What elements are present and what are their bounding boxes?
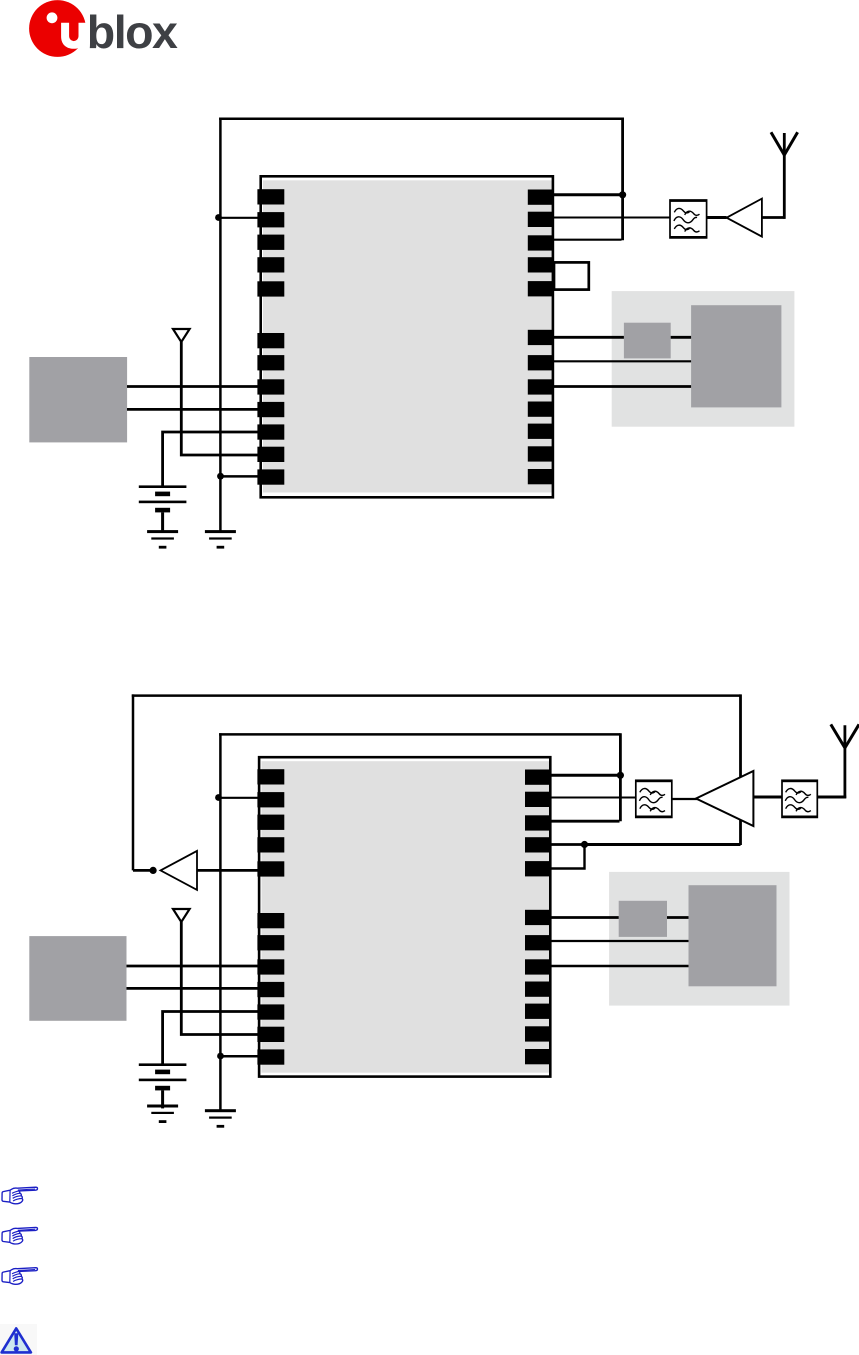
peripheral group box (right, diagram 1) (612, 291, 795, 427)
wire: pin R6 to level shifter (diagram 2) (550, 916, 619, 919)
wire: host block to pin L9 (diagram 2) (127, 987, 260, 990)
wire: outer rail right vertical (diagram 2) (739, 694, 742, 845)
backup battery (diagram 1) (139, 485, 187, 530)
wire: right vertical drop from rail (diagram 2) (619, 733, 622, 821)
GNSS module (diagram 2) (259, 757, 550, 1076)
GNSS module (diagram 1) (261, 176, 553, 497)
host CPU block (diagram 2) (689, 885, 777, 986)
wire: pin R3 to rail drop (diagram 2) (550, 820, 620, 823)
junction: pin R1 / rail drop (diagram 1) (619, 191, 626, 198)
wire: host block to pin L8 (diagram 1) (127, 385, 260, 388)
ground: battery (diagram 2) (147, 1105, 178, 1124)
wire: rail to pin L2 (diagram 1) (219, 217, 260, 219)
wire: SAW filter to antenna (diagram 2) (817, 796, 846, 799)
peripheral group box (right, diagram 2) (609, 872, 789, 1006)
wire: battery to pin L10 (diagram 1) (163, 432, 260, 486)
note icon: pointing hand 2 (2, 1227, 38, 1244)
wire: right vertical drop from rail (diagram 1) (621, 118, 624, 241)
wire: pin R1 to rail drop (diagram 2) (550, 774, 620, 777)
ground: left rail (diagram 2) (205, 1109, 236, 1128)
wire: rail to pin L12 (diagram 2) (221, 1055, 260, 1058)
level shifter block (diagram 1) (624, 323, 671, 359)
junction: rail / pin L2 (diagram 2) (215, 794, 222, 801)
module pins right column (diagram 2) (525, 770, 552, 1065)
SAW filter after LNA (diagram 2) (636, 780, 672, 818)
junction: rail / pin L2 (diagram 1) (215, 214, 222, 221)
wire: pin R7 to CPU (diagram 1) (552, 360, 691, 362)
wire: pin R6 to level shifter (diagram 1) (552, 336, 624, 339)
SAW filter (diagram 1) (670, 200, 707, 239)
antenna supervisor inverter (diagram 2) (161, 851, 198, 890)
wire: VCC to pin L11 (diagram 1) (181, 342, 259, 455)
junction: rail / pin L12 (diagram 2) (217, 1053, 224, 1060)
junction: pin R1 / rail drop (diagram 2) (617, 772, 624, 779)
wire: outer rail left vertical (diagram 2) (132, 694, 135, 870)
module pins left column (diagram 2) (257, 769, 284, 1065)
wire: pin R7 to CPU (diagram 2) (550, 940, 689, 942)
module pins right column (diagram 1) (528, 190, 553, 485)
module pins left column (diagram 1) (257, 189, 284, 485)
LNA amplifier (diagram 1) (727, 199, 762, 237)
wire: host block to pin L8 (diagram 2) (127, 965, 260, 968)
wire: VCC to pin L11 (diagram 2) (181, 922, 259, 1035)
host system block (left, diagram 2) (29, 936, 126, 1021)
wire: LNA to antenna (diagram 1) (762, 216, 786, 219)
wire: SAW filter to LNA (diagram 2) (672, 798, 698, 800)
warning icon background (0, 1324, 37, 1355)
wire: host block to pin L9 (diagram 1) (127, 408, 260, 411)
level shifter block (diagram 2) (619, 901, 667, 937)
wire: rail to pin L12 (diagram 1) (221, 475, 260, 478)
SAW filter at antenna (diagram 2) (782, 780, 817, 818)
u-blox logo (29, 0, 178, 58)
wire: battery to pin L10 (diagram 2) (163, 1012, 260, 1065)
note icon: pointing hand 3 (2, 1268, 38, 1285)
wire: top V_BCKP rail (diagram 1) (219, 118, 622, 121)
wire: pin R2 RF_IN to SAW filter (diagram 1) (552, 217, 670, 219)
VCC supply symbol (diagram 1) (173, 329, 190, 342)
wire: outer rail to inverter input (diagram 2) (133, 869, 154, 872)
active antenna (diagram 2) (831, 724, 859, 798)
wire: outer antenna supply rail (diagram 2) (132, 694, 741, 697)
junction: antenna supply node (diagram 2) (581, 841, 588, 848)
backup battery (diagram 2) (139, 1063, 187, 1108)
wire: left vertical rail (diagram 2) (219, 733, 222, 1110)
wire: pin R4 to supply node (diagram 2) (550, 843, 585, 846)
ground: battery (diagram 1) (147, 530, 178, 549)
wire: pin R8 to CPU (diagram 1) (552, 385, 691, 388)
note icon: pointing hand 1 (2, 1187, 38, 1204)
wire: SAW filter to LNA (diagram 1) (707, 216, 727, 219)
warning icon triangle (2, 1328, 31, 1352)
wire: left vertical rail (diagram 1) (219, 118, 222, 531)
junction: rail / pin L12 (diagram 1) (217, 473, 224, 480)
wire: top V_BCKP rail (diagram 2) (219, 733, 620, 736)
wire: supply node to outer rail (diagram 2) (585, 843, 741, 846)
host CPU block (diagram 1) (691, 305, 781, 407)
antenna (diagram 1) (771, 132, 798, 219)
wire: level shifter to CPU (diagram 1) (671, 336, 691, 339)
VCC supply symbol (diagram 2) (173, 909, 190, 922)
wire: LNA to antenna SAW filter (diagram 2) (753, 796, 782, 799)
wire: pin R3 to rail drop (diagram 1) (552, 239, 622, 241)
loopback rectangle pins R4-R5 (diagram 1) (554, 262, 589, 289)
ground: left rail (diagram 1) (205, 530, 236, 549)
wire: pin R1 to rail drop (diagram 1) (552, 193, 623, 196)
svg-text:blox: blox (87, 6, 178, 58)
host system block (left, diagram 1) (29, 357, 127, 442)
wire: inverter to pin L5 (diagram 2) (197, 869, 260, 872)
wire: pin R2 RF_IN to SAW filter (diagram 2) (550, 797, 636, 799)
wire: level shifter to CPU (diagram 2) (667, 916, 689, 919)
wire: pin R8 to CPU (diagram 2) (550, 965, 689, 967)
external LNA (diagram 2) (696, 771, 753, 826)
junction: inverter input node (diagram 2) (150, 867, 157, 874)
wire: rail to pin L2 (diagram 2) (219, 797, 260, 799)
wire: supply node down to pin R5 (diagram 2) (550, 845, 585, 869)
